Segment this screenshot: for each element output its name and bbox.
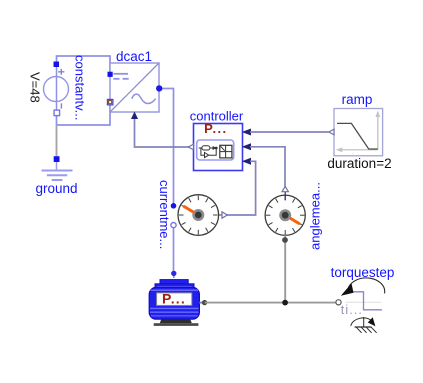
wire ground pin stem [56,162,58,171]
junction shaft node [282,300,288,306]
inverter dcac1 [110,63,159,112]
dc motor dcpm [149,280,204,326]
arrowhead fire into dcac1 [131,112,138,120]
wire constantv.p to dcac1.dc_p [57,56,111,74]
pin constantv.n [54,110,60,116]
pin currentsensor.n [171,223,176,228]
controller [194,121,243,170]
output connector ramp.y [329,129,334,135]
wire currentsensor.i to controller [227,161,256,215]
svg-text:V=48: V=48 [28,72,43,103]
current sensor currentme [178,195,219,236]
wire controller.y to dcac1 fire [135,113,191,147]
torque step torquestep [341,278,385,317]
voltage source constantv [44,65,69,114]
output connector anglesensor.phi [282,186,288,191]
svg-text:constantv...: constantv... [73,55,88,121]
svg-text:currentme...: currentme... [157,180,172,249]
ground [42,171,73,181]
input arrow controller (from ramp) [242,129,251,136]
svg-text:ramp: ramp [342,92,373,107]
output connector controller.y [188,144,193,150]
pin ground.p [54,156,60,162]
ramp [334,109,383,156]
shaft wire motor to torquestep [205,302,336,304]
wire constantv.n to dcac1.dc_n [57,102,111,125]
svg-text:ti...: ti... [341,303,363,317]
svg-text:controller: controller [190,109,244,124]
svg-text:dcac1: dcac1 [116,49,152,64]
pin motor shaft flange [202,300,207,305]
wire anglesensor.phi to controller [250,147,285,187]
wire constantv.n to ground (gray segment) [56,125,58,156]
svg-text:ground: ground [35,181,77,196]
wire anglesensor.flange to shaft [284,235,286,302]
pin constantv.p [54,62,60,68]
angle sensor anglemea [265,192,305,235]
wire dcac1.ac to currentsensor.p [159,89,174,206]
pin motor pin_ap [171,271,176,276]
node dcac1.ac junction [156,85,162,91]
wire currentsensor.n to motor pin [173,225,175,271]
wire ramp.y to controller [250,131,329,133]
support fixed [351,317,377,333]
controller inner icon: block with feedback [199,147,202,149]
svg-text:torquestep: torquestep [331,265,395,280]
svg-text:P...: P... [162,290,186,306]
pin dcac1.dc_p [108,72,113,77]
input arrow controller (from current sensor) [242,158,251,165]
input arrow controller (from angle sensor) [242,143,251,150]
svg-text:duration=2: duration=2 [327,156,391,171]
pin currentsensor.p [171,203,177,209]
pin torquestep.flange [336,300,341,305]
output connector currentsensor.i [222,212,227,218]
pin dcac1.dc_n [107,99,113,105]
line sensor to output connector [219,214,222,216]
pin anglesensor.flange [282,237,288,243]
wire motor pin vertical [173,271,175,278]
svg-text:anglemea...: anglemea... [308,182,323,250]
